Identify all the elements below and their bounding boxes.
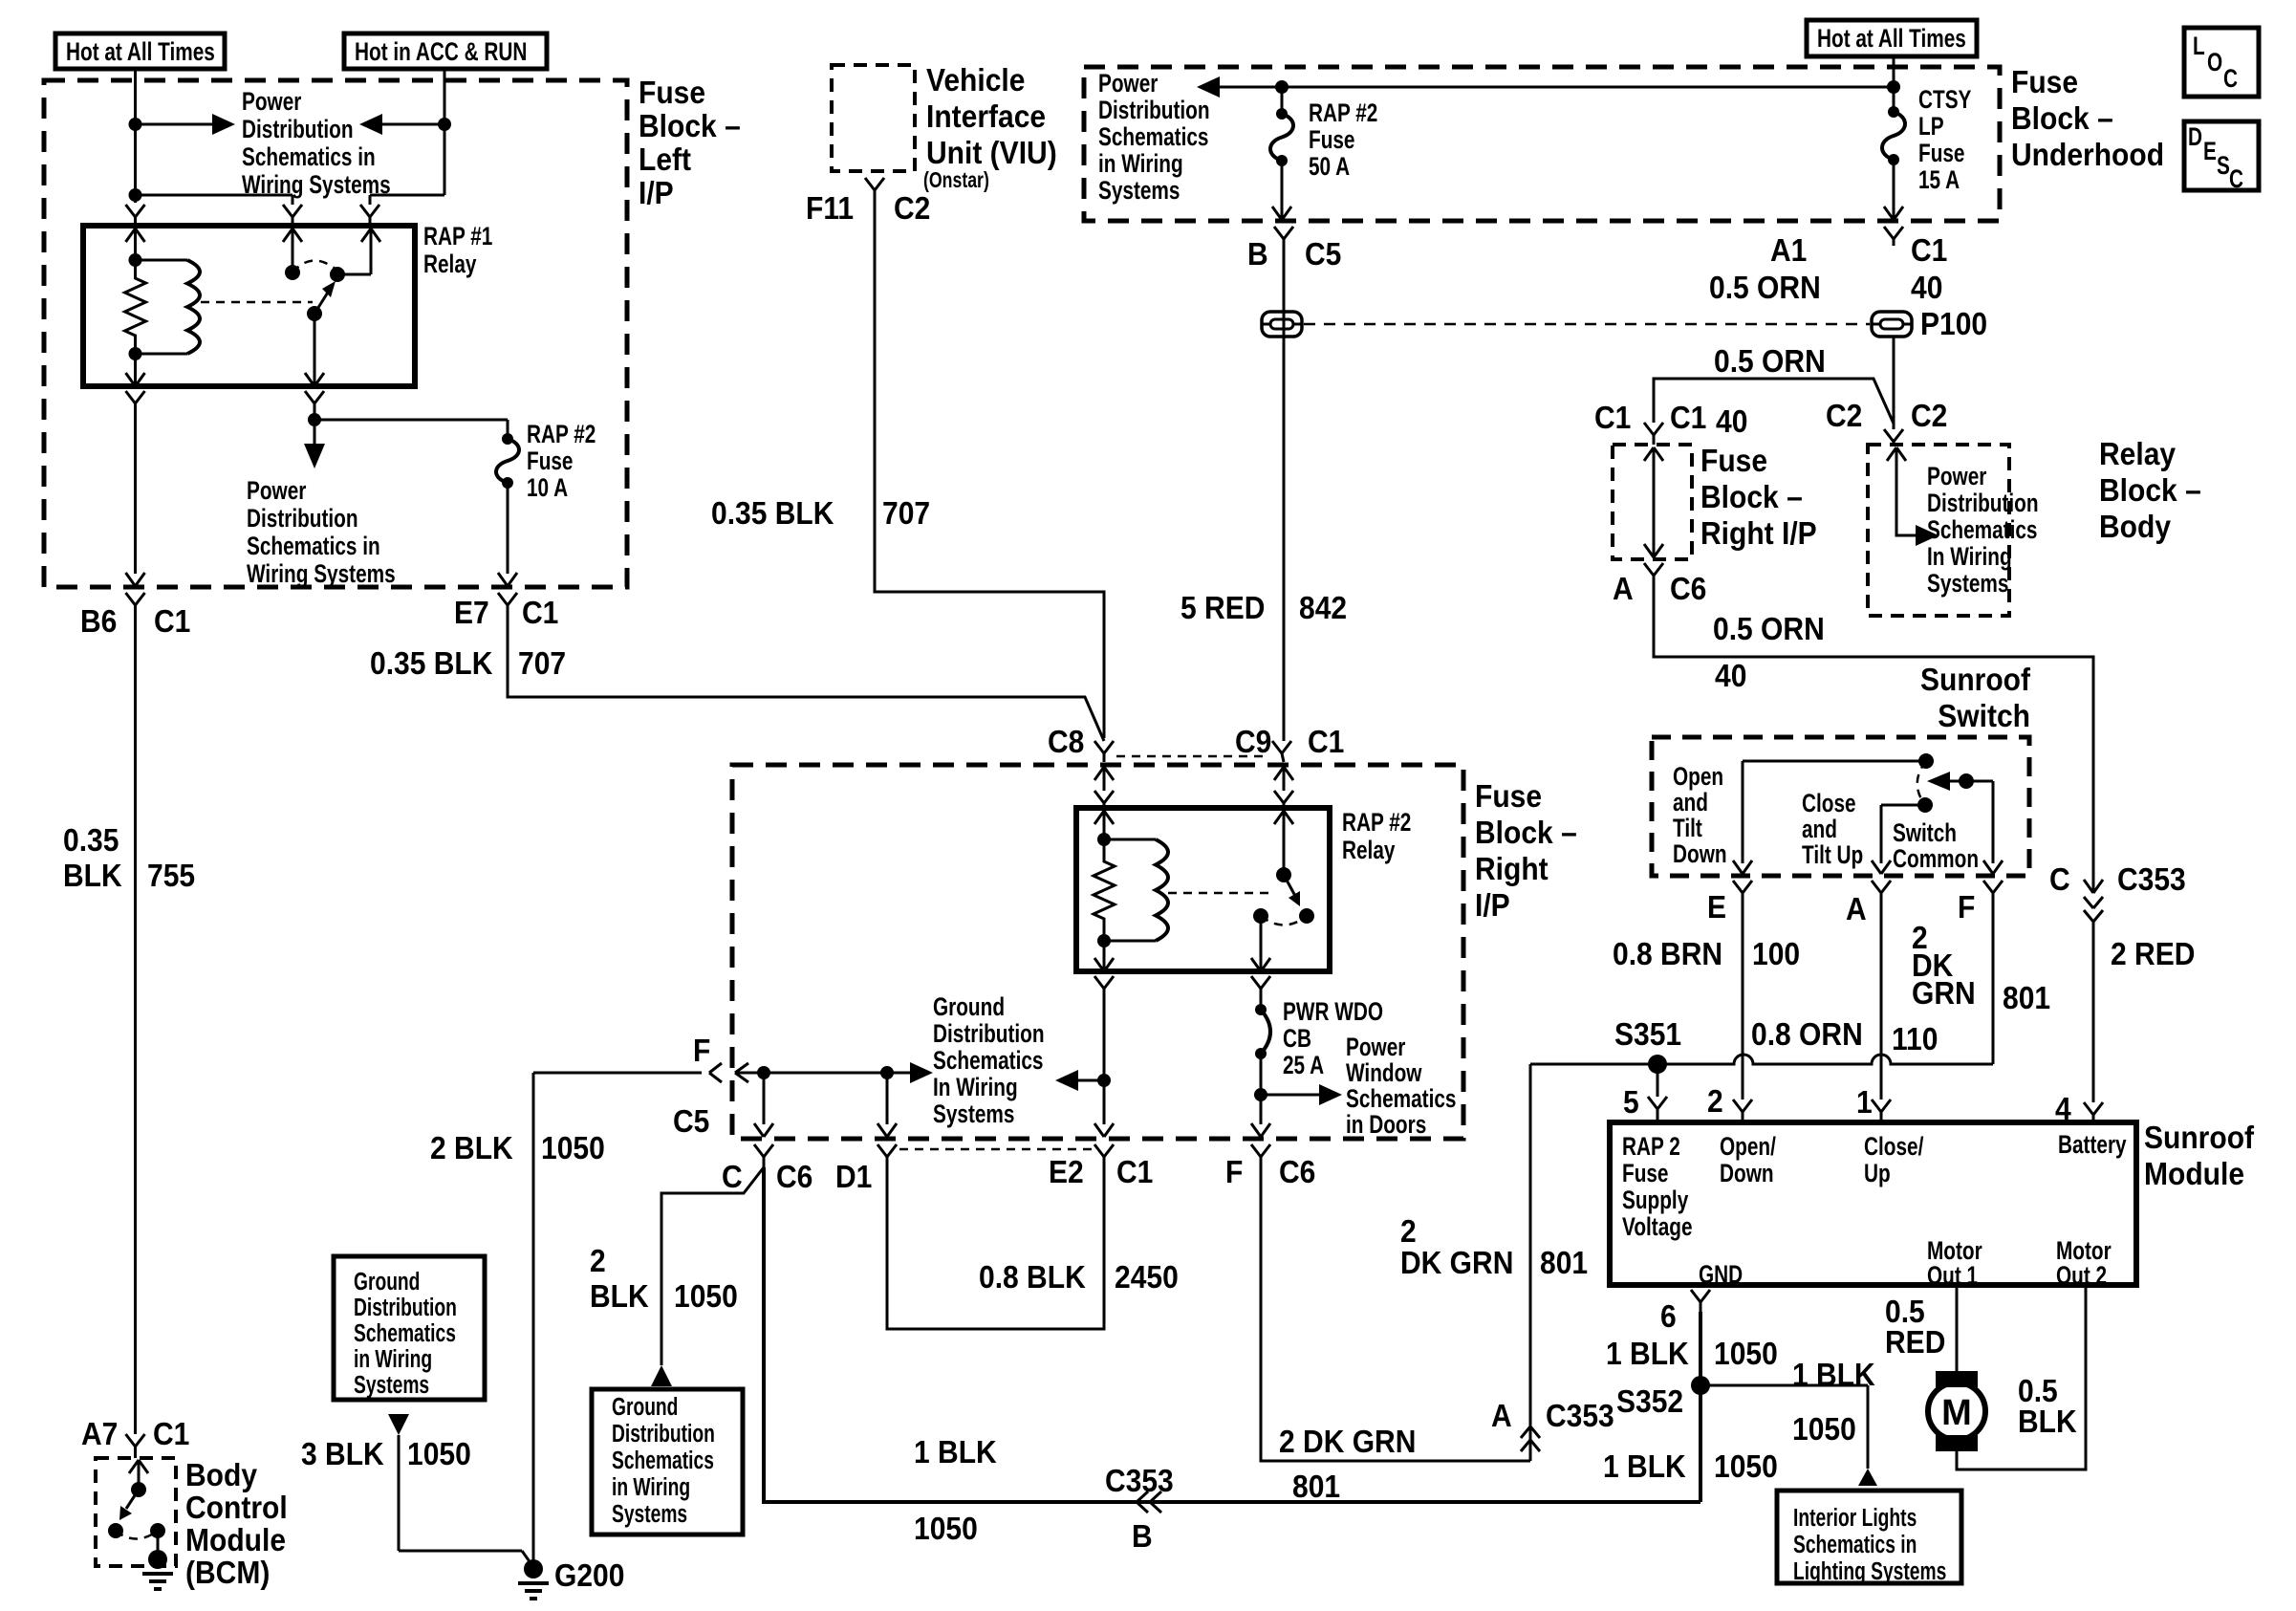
wire RAP#2 coil to E2 exit [1103, 995, 1106, 1124]
reference arrow down to Power Distribution text [304, 420, 325, 468]
svg-text:in Doors: in Doors [1346, 1110, 1426, 1139]
label 801 (switch common) [2003, 980, 2050, 1016]
svg-text:in Wiring: in Wiring [354, 1344, 432, 1373]
label Vehicle Interface Unit (VIU) [926, 62, 1057, 171]
node junction at (141,204) [129, 188, 142, 202]
svg-text:(BCM): (BCM) [185, 1555, 270, 1591]
connector below RAP#2 relay right [1251, 976, 1270, 995]
svg-text:BLK: BLK [590, 1278, 649, 1315]
reference text Power Distribution Schematics in Wiring Systems (lower-left) [247, 476, 396, 588]
BCM ground node [148, 1550, 167, 1569]
label 2 RED [2111, 936, 2195, 972]
BCM ground contact [150, 1523, 165, 1557]
label 1050 (3 BLK) [407, 1436, 471, 1472]
svg-text:Schematics: Schematics [354, 1318, 456, 1347]
wire S351 bus with hops [1530, 1055, 1993, 1064]
svg-text:C: C [2229, 164, 2243, 193]
label C5 (F) [673, 1103, 709, 1140]
svg-text:Fuse: Fuse [639, 75, 705, 111]
svg-text:Power: Power [1098, 69, 1158, 98]
exit arrow F/C6 [1251, 1123, 1270, 1137]
svg-text:Schematics: Schematics [1098, 122, 1208, 151]
wire 3 BLK 1050 to G200 [399, 1435, 533, 1567]
wire relay output to B6 exit [134, 410, 137, 574]
wire C/C353 entry arrow [2084, 880, 2103, 922]
label F (C6) [1225, 1154, 1243, 1190]
svg-text:C2: C2 [1911, 398, 1947, 434]
svg-text:Close/: Close/ [1864, 1132, 1924, 1161]
wire 0.8 BLK 2450 loop D1-E2 [887, 1167, 1104, 1329]
svg-text:in Wiring: in Wiring [1098, 149, 1183, 178]
svg-text:Systems: Systems [354, 1370, 429, 1399]
label 2 BLK (vertical pair) [590, 1243, 649, 1315]
svg-text:C353: C353 [1105, 1463, 1174, 1499]
wire F/C6 down [1260, 1095, 1263, 1124]
label C1 (E2) [1116, 1154, 1153, 1190]
wire fuse RAP#2 50A down to edge [1272, 161, 1291, 221]
svg-text:Ground: Ground [354, 1267, 420, 1295]
label Close/Up (module) [1864, 1132, 1924, 1187]
connector F below switch [1983, 881, 2003, 899]
node junction CTSY (1981,91) [1887, 80, 1900, 94]
label C1 (B6) [154, 603, 190, 640]
svg-text:CTSY: CTSY [1918, 85, 1971, 114]
svg-text:E2: E2 [1049, 1154, 1084, 1190]
svg-text:707: 707 [882, 495, 930, 532]
svg-text:BLK: BLK [63, 858, 122, 894]
svg-text:0.8 BLK: 0.8 BLK [979, 1259, 1086, 1295]
label 1050 (bus) [914, 1511, 978, 1547]
label A1 [1770, 232, 1807, 269]
wire branch 0.5 ORN 40 to C1 [1654, 379, 1894, 424]
fuse CTSY LP 15 A [1882, 87, 1905, 165]
svg-text:C9: C9 [1235, 724, 1271, 760]
label P100 [1920, 306, 1987, 342]
label Motor Out 2 [2056, 1236, 2112, 1290]
entry arrow at F/C5 [735, 1063, 764, 1082]
ground symbol (BCM) [142, 1574, 173, 1589]
dashed box Fuse Block - Right I/P [732, 765, 1463, 1139]
box Ground Distribution Schematics in Wiring Systems (center) [592, 1389, 743, 1535]
svg-text:801: 801 [1292, 1469, 1340, 1505]
svg-text:Fuse: Fuse [1475, 778, 1542, 815]
svg-text:801: 801 [2003, 980, 2050, 1016]
label GND [1699, 1260, 1743, 1289]
svg-text:D: D [2188, 122, 2202, 151]
label 4 (pin) [2055, 1091, 2071, 1127]
label A (C353) [1491, 1398, 1512, 1434]
label 2450 [1115, 1259, 1179, 1295]
svg-text:RAP #2: RAP #2 [1342, 808, 1411, 837]
svg-text:Sunroof: Sunroof [2144, 1120, 2254, 1156]
label A (C6) [1613, 571, 1634, 607]
connector E2 C1 [1094, 1144, 1114, 1167]
svg-text:Fuse: Fuse [1622, 1159, 1668, 1187]
wire 0.5 ORN 40 (A/C6 to C/C353) [1654, 583, 2093, 893]
svg-text:O: O [2207, 48, 2222, 76]
reference text Power Distribution Schematics in Wiring Systems (underhood) [1098, 69, 1210, 205]
svg-text:Hot at All Times: Hot at All Times [1817, 24, 1966, 53]
svg-text:and: and [1673, 788, 1708, 816]
connector below relay RAP#1 right [305, 391, 324, 410]
label PWR WDO CB 25 A [1283, 997, 1383, 1079]
wire arrow to Power Distribution text (right) [136, 114, 236, 135]
svg-text:PWR WDO: PWR WDO [1283, 997, 1383, 1026]
svg-text:Schematics: Schematics [612, 1446, 714, 1474]
svg-text:Distribution: Distribution [612, 1419, 715, 1448]
svg-text:5 RED: 5 RED [1180, 590, 1265, 626]
svg-text:Power: Power [1927, 462, 1986, 490]
dashed actuation link RAP#1 [201, 301, 313, 304]
svg-text:CB: CB [1283, 1024, 1311, 1053]
svg-text:Vehicle: Vehicle [926, 62, 1025, 98]
svg-text:Relay: Relay [423, 250, 477, 278]
header box 'Hot at All Times' (right) [1807, 20, 1977, 56]
label C8 [1048, 724, 1084, 760]
svg-text:S: S [2217, 151, 2230, 180]
reference text Ground Distribution Schematics In Wiring Systems (in right fuse block) [933, 992, 1045, 1128]
splice S352 [1691, 1376, 1710, 1395]
label C353 (A) [1546, 1398, 1614, 1434]
svg-text:Down: Down [1720, 1159, 1774, 1187]
node junction ground ref (1155,1130) [1097, 1074, 1111, 1087]
connector C9 [1272, 741, 1291, 762]
label 2 (DK GRN mid) [1400, 1213, 1417, 1250]
relay RAP#1 switch input pin 30 [283, 229, 302, 280]
svg-text:C1: C1 [522, 595, 558, 631]
connector pin 4 [2084, 1102, 2103, 1122]
wire from Hot at All Times down (x=141) [134, 69, 137, 203]
svg-text:Systems: Systems [1927, 569, 2008, 598]
svg-text:Schematics in: Schematics in [242, 142, 376, 171]
connector pin 1 [1872, 1099, 1891, 1122]
svg-text:E: E [1707, 889, 1726, 925]
label 842 [1299, 590, 1347, 626]
svg-text:C353: C353 [2117, 861, 2186, 898]
connector F C6 [1251, 1144, 1270, 1167]
svg-text:110: 110 [1892, 1021, 1938, 1057]
svg-text:Left: Left [639, 142, 691, 178]
label C (C6) [722, 1159, 743, 1195]
svg-text:RAP #2: RAP #2 [527, 420, 596, 448]
label 5 [1623, 1084, 1639, 1121]
wire 2 BLK 1050 (F/C5 to G200) [532, 1073, 535, 1569]
label Fuse Block - Right I/P (small box) [1700, 443, 1817, 552]
connector into relay at x=306 [283, 205, 302, 226]
dashed box Fuse Block - Right I/P (small) [1613, 445, 1692, 559]
fuse RAP #2 50 A [1270, 87, 1293, 166]
svg-text:Block –: Block – [1475, 815, 1577, 851]
svg-text:Systems: Systems [933, 1099, 1014, 1128]
label 1050 (branch) [1792, 1411, 1856, 1448]
reference triangle above Interior Lights box [1858, 1469, 1877, 1486]
svg-text:Lighting Systems: Lighting Systems [1793, 1557, 1946, 1585]
wire branch (465,204) to relay pin 87 connector [370, 195, 444, 205]
dashed box Fuse Block - Left I/P [44, 80, 627, 587]
wire branch to RAP #2 fuse [314, 420, 508, 439]
label 0.5 RED [1885, 1294, 1945, 1361]
label 0.5 BLK [2018, 1373, 2077, 1440]
connector C353 B on bus [1137, 1491, 1161, 1513]
svg-text:1 BLK: 1 BLK [914, 1434, 997, 1470]
node junction (928,1124) [880, 1066, 894, 1079]
wire 0.35 BLK 707 from E7 to C8 [508, 614, 1104, 741]
dashed box Relay Block - Body [1868, 445, 2009, 616]
svg-text:1050: 1050 [541, 1130, 605, 1166]
svg-text:Fuse: Fuse [527, 446, 573, 475]
svg-text:0.35: 0.35 [63, 822, 119, 859]
dashed arc RAP#2 switch [1261, 916, 1307, 925]
svg-text:P100: P100 [1920, 306, 1987, 342]
wire to Ground Distribution text arrow (left side) [764, 1062, 933, 1083]
svg-text:Right I/P: Right I/P [1700, 515, 1817, 552]
svg-text:10 A: 10 A [527, 473, 568, 502]
svg-text:1 BLK: 1 BLK [1606, 1336, 1689, 1372]
svg-text:C1: C1 [153, 1416, 189, 1452]
svg-text:GND: GND [1699, 1260, 1743, 1289]
label 1050 (2 BLK vertical) [674, 1278, 738, 1315]
label 1050 (S352 down) [1714, 1448, 1778, 1485]
svg-text:C: C [722, 1159, 743, 1195]
svg-text:Block –: Block – [639, 108, 741, 144]
svg-text:1050: 1050 [1714, 1336, 1778, 1372]
label C1 (A7) [153, 1416, 189, 1452]
svg-text:A: A [1491, 1398, 1512, 1434]
svg-text:S351: S351 [1614, 1016, 1681, 1053]
exit arrow E2 [1094, 1123, 1114, 1137]
svg-text:2 RED: 2 RED [2111, 936, 2195, 972]
connector B6 C1 [126, 593, 145, 614]
wire inside small fuse block box [1644, 447, 1663, 557]
label Sunroof Module [2144, 1120, 2254, 1192]
svg-text:Block –: Block – [2099, 472, 2201, 509]
svg-text:C6: C6 [1670, 571, 1706, 607]
svg-text:Interior Lights: Interior Lights [1793, 1503, 1917, 1532]
reference text Power Distribution Schematics in Wiring Systems (top-left) [242, 87, 391, 199]
svg-text:Distribution: Distribution [354, 1293, 457, 1321]
svg-text:40: 40 [1716, 403, 1747, 440]
svg-text:Hot at All Times: Hot at All Times [66, 37, 215, 66]
svg-text:1050: 1050 [674, 1278, 738, 1315]
reference text Power Distribution Schematics In Wiring Systems (relay block body) [1927, 462, 2039, 598]
wire 5 RED 842 (B/C5 to C9) [1283, 246, 1286, 741]
label Fuse Block - Left I/P [639, 75, 741, 211]
circuit breaker PWR WDO CB 25A [1255, 995, 1270, 1095]
svg-text:I/P: I/P [1475, 887, 1510, 924]
svg-text:F11: F11 [806, 190, 854, 227]
svg-text:1050: 1050 [407, 1436, 471, 1472]
connector D1 [877, 1144, 897, 1167]
svg-text:0.5 ORN: 0.5 ORN [1709, 270, 1821, 306]
svg-text:6: 6 [1660, 1298, 1677, 1335]
svg-text:1050: 1050 [1792, 1411, 1856, 1448]
box Interior Lights Schematics in Lighting Systems [1777, 1491, 1961, 1585]
svg-text:Body: Body [185, 1457, 257, 1493]
dashed link D1 to E2 [899, 1148, 1092, 1151]
label C6 (C) [776, 1159, 812, 1195]
wire arrow into Power Distribution text (underhood) [1197, 76, 1895, 98]
svg-text:Unit (VIU): Unit (VIU) [926, 135, 1057, 171]
label 3 BLK [301, 1436, 384, 1472]
wire arrow from ACC&RUN to Power Distribution text (left) [359, 114, 444, 135]
svg-text:C1: C1 [1670, 400, 1706, 436]
label 1 BLK (branch) [1792, 1357, 1875, 1393]
svg-text:Distribution: Distribution [242, 115, 354, 143]
svg-text:A: A [1846, 891, 1867, 927]
svg-text:DK GRN: DK GRN [1400, 1245, 1513, 1281]
coil of RAP#2 relay [1104, 839, 1168, 941]
label C2 (left) [1826, 398, 1862, 434]
connector pin 5 [1648, 1064, 1667, 1122]
entry arrows C9 into right fuse block [1274, 767, 1293, 791]
svg-text:5: 5 [1623, 1084, 1639, 1121]
svg-text:755: 755 [147, 858, 195, 894]
svg-text:Out 1: Out 1 [1927, 1261, 1978, 1290]
svg-text:Tilt Up: Tilt Up [1802, 840, 1863, 869]
svg-text:Up: Up [1864, 1159, 1891, 1187]
wire CTSY fuse down to edge [1884, 160, 1903, 221]
label Fuse Block - Underhood [2011, 64, 2164, 173]
node junction (1319,1145) [1254, 1088, 1267, 1101]
relay RAP #1 box [83, 226, 415, 386]
svg-text:Hot in ACC & RUN: Hot in ACC & RUN [355, 37, 527, 66]
svg-text:801: 801 [1540, 1245, 1588, 1281]
exit arrow E7 at left fuse block edge [498, 573, 517, 586]
svg-text:Battery: Battery [2058, 1130, 2127, 1159]
svg-text:Power: Power [247, 476, 306, 505]
coil of RAP#1 relay [136, 260, 201, 354]
svg-text:Power: Power [1346, 1033, 1405, 1061]
relay RAP#2 switch NO contact [1299, 908, 1314, 924]
svg-text:C1: C1 [1911, 232, 1947, 269]
svg-text:E7: E7 [454, 595, 489, 631]
label CTSY LP Fuse 15 A [1918, 85, 1971, 194]
node RAP#2 coil top [1097, 833, 1111, 846]
svg-text:RED: RED [1885, 1324, 1945, 1361]
svg-text:(Onstar): (Onstar) [923, 168, 989, 193]
connector pin 2 [1733, 1099, 1752, 1122]
svg-text:40: 40 [1715, 658, 1746, 694]
label 2 BLK [430, 1130, 513, 1166]
wire inside Relay Block Body with arrow to text [1887, 447, 1939, 546]
svg-text:Schematics: Schematics [1346, 1084, 1456, 1113]
svg-text:C8: C8 [1048, 724, 1084, 760]
label Open/Down (module) [1720, 1132, 1776, 1187]
connector below RAP#2 relay left [1094, 976, 1114, 995]
switch contact open/tilt-down [1733, 753, 1934, 874]
reference triangle above ground box 2 [651, 1365, 672, 1386]
label B (C353) [1132, 1518, 1153, 1555]
connector B C5 [1274, 227, 1293, 246]
label 1 BLK (bus) [914, 1434, 997, 1470]
label C6 (A) [1670, 571, 1706, 607]
label 1 BLK (pin6) [1606, 1336, 1689, 1372]
node junction RAP#2 50A (1341,91) [1275, 80, 1289, 94]
svg-text:Power: Power [242, 87, 301, 116]
ground node G200 [524, 1559, 543, 1578]
svg-text:RAP #1: RAP #1 [423, 222, 492, 250]
svg-text:Fuse: Fuse [1309, 125, 1354, 154]
dashed link C8 to C9 [1116, 755, 1269, 758]
svg-text:RAP 2: RAP 2 [1622, 1132, 1680, 1161]
svg-text:Systems: Systems [612, 1499, 687, 1528]
svg-text:3 BLK: 3 BLK [301, 1436, 384, 1472]
svg-text:LP: LP [1918, 112, 1944, 141]
svg-text:Body: Body [2099, 509, 2171, 545]
wire 2 RED (C353 to pin 4) [2092, 922, 2095, 1102]
label 0.8 BRN [1613, 936, 1722, 972]
wire from Hot at All Times (right) down [1893, 56, 1895, 87]
resistor inside RAP#2 relay [1094, 839, 1115, 941]
connector into RAP#2 relay right [1274, 791, 1293, 808]
svg-text:Relay: Relay [2099, 436, 2177, 472]
wire relay switch to junction [314, 410, 316, 420]
svg-text:Voltage: Voltage [1622, 1212, 1693, 1241]
connector E7 C1 [498, 593, 517, 614]
connector C1 C1 [1644, 423, 1663, 445]
svg-text:Distribution: Distribution [933, 1019, 1045, 1048]
svg-text:C1: C1 [1308, 724, 1344, 760]
label 1 BLK (S352 down) [1603, 1448, 1686, 1485]
label 0.5 ORN (A1) [1709, 270, 1821, 306]
svg-text:Schematics: Schematics [933, 1046, 1043, 1075]
label B6 [80, 603, 117, 640]
relay RAP#1 coil output (arrow down) [126, 354, 145, 386]
node coil top (141,272) [129, 253, 142, 267]
connector A C6 [1644, 563, 1663, 583]
svg-text:2 DK GRN: 2 DK GRN [1279, 1424, 1416, 1460]
ground symbol G200 [518, 1583, 549, 1599]
label E7 [454, 595, 489, 631]
switch contact close/tilt-up [1872, 797, 1933, 874]
svg-text:Module: Module [2144, 1156, 2244, 1192]
label A7 [81, 1416, 118, 1452]
label 2 (pin) [1707, 1083, 1723, 1120]
label C1 (left) [1594, 400, 1631, 436]
label C9 [1235, 724, 1271, 760]
svg-text:S352: S352 [1616, 1383, 1683, 1420]
svg-text:C5: C5 [1305, 236, 1341, 272]
label F (switch) [1958, 889, 1975, 925]
label S352 [1616, 1383, 1683, 1420]
wire 2 BLK 1050 to F/C5 [533, 1072, 702, 1075]
grommet P100 right [1872, 312, 1912, 337]
label 0.35 BLK (707) [370, 645, 493, 682]
wire C exit drop [754, 1073, 773, 1137]
svg-text:Window: Window [1346, 1058, 1422, 1087]
label 801 (bottom) [1292, 1469, 1340, 1505]
svg-text:Ground: Ground [933, 992, 1005, 1021]
svg-text:0.5 ORN: 0.5 ORN [1714, 343, 1826, 380]
label Battery [2058, 1130, 2127, 1159]
label Sunroof Switch title [1920, 662, 2030, 734]
wire S352 down to ground bus [1699, 1385, 1702, 1502]
svg-text:C: C [2049, 861, 2070, 898]
svg-text:B: B [1247, 236, 1268, 272]
label 2 DK GRN 801 (vertical stack) [1912, 920, 1976, 1012]
node RAP#2 coil bottom [1097, 934, 1111, 947]
svg-text:0.35 BLK: 0.35 BLK [711, 495, 834, 532]
connector A7 C1 [126, 1434, 145, 1458]
dashed arc RAP#1 switch [292, 260, 337, 272]
label Relay Block - Body [2099, 436, 2201, 545]
wire 2 BLK 1050 from C/C6 to ground box 2 [661, 1167, 764, 1365]
dashed box Body Control Module [96, 1458, 176, 1566]
label Switch Common [1893, 818, 1979, 873]
wire S352 branch to Interior Lights box [1700, 1385, 1868, 1469]
wire D1 exit drop [877, 1073, 897, 1137]
svg-text:and: and [1802, 815, 1837, 843]
